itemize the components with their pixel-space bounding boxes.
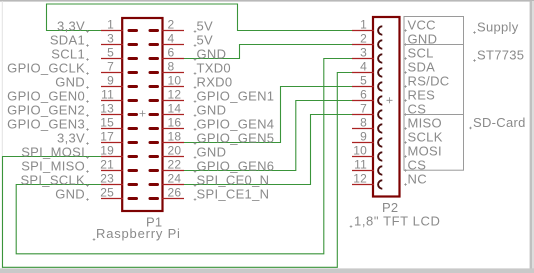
P1 pin 11 contact bar [128,99,139,102]
svg-text:7: 7 [360,102,367,116]
P2 pin 9 socket arc [378,138,382,146]
group divider Supply/ST7735 [404,44,464,46]
P1 pin 20 stub (right) [162,156,184,158]
svg-text:RES: RES [408,88,436,103]
P1 pin 17 contact bar [128,141,139,144]
P1 pin 17 stub (left) [101,142,123,144]
svg-text:5V: 5V [197,19,214,34]
svg-text:NC: NC [408,172,427,187]
P2 pin 6 stub [352,100,374,102]
connector P1 body [122,18,162,211]
P1 pin 3 stub (left) [101,44,123,46]
svg-text:11: 11 [101,88,114,102]
P1 pin 4 stub (right) [162,44,184,46]
svg-text:GPIO_GEN5: GPIO_GEN5 [197,131,275,146]
P1 pin 23 stub (left) [101,184,123,186]
P2 pin-name group box [404,17,464,171]
svg-text:SCL1: SCL1 [51,47,85,62]
svg-text:20: 20 [168,144,182,158]
P1 pin 14 stub (right) [162,114,184,116]
P1 pin 24 stub (right) [162,184,184,186]
svg-text:GPIO_GEN6: GPIO_GEN6 [197,159,275,174]
P2 pin 1 socket arc [378,26,382,34]
svg-text:5: 5 [107,46,114,60]
P2 pin 1 stub [352,30,374,32]
P1 pin 6 stub (right) [162,58,184,60]
P1 pin 24 contact bar [149,183,160,186]
svg-text:RS/DC: RS/DC [408,74,450,89]
P2 pin 10 socket arc [378,152,382,160]
P1 pin 9 contact bar [128,85,139,88]
svg-text:21: 21 [100,158,114,172]
P1 pin 16 contact bar [149,127,160,130]
svg-text:GPIO_GCLK: GPIO_GCLK [7,61,85,76]
svg-text:14: 14 [168,102,182,116]
P1 pin 18 stub (right) [162,142,184,144]
svg-text:15: 15 [100,116,114,130]
P2 pin 7 stub [352,114,374,116]
P2 pin 6 socket arc [378,96,382,104]
svg-text:3: 3 [107,32,114,46]
P2 origin marker [387,97,393,103]
svg-text:3: 3 [360,46,367,60]
P1 pin 2 stub (right) [162,30,184,32]
P2 pin 4 socket arc [378,68,382,76]
P2 pin 11 stub [352,170,374,172]
svg-text:GPIO_GEN2: GPIO_GEN2 [7,103,85,118]
svg-text:8: 8 [360,116,367,130]
svg-text:9: 9 [360,130,367,144]
P2 pin 5 stub [352,86,374,88]
connector P2 body [373,17,400,197]
svg-text:GND: GND [55,187,85,202]
svg-text:SDA: SDA [408,60,436,75]
wire net GND: P1 pin6 to P2 pin2 GND [184,45,352,59]
wire net RS/DC: P1 pin18 GPIO_GEN5 to P2 pin5 [184,87,352,143]
P1 pin 21 contact bar [128,169,139,172]
P1 pin 1 stub (left) [101,30,123,32]
svg-text:MISO: MISO [408,116,442,131]
svg-text:Raspberry Pi: Raspberry Pi [96,226,181,241]
P1 pin 11 stub (left) [101,100,123,102]
P1 pin 23 contact bar [128,183,139,186]
svg-text:10: 10 [168,74,182,88]
P1 pin 6 contact bar [149,57,160,60]
P1 pin 5 stub (left) [101,58,123,60]
P1 pin 13 stub (left) [101,114,123,116]
svg-text:2: 2 [360,32,367,46]
svg-text:1,8" TFT LCD: 1,8" TFT LCD [354,214,440,229]
P1 pin 9 stub (left) [101,86,123,88]
svg-text:SD-Card: SD-Card [473,115,526,130]
svg-text:25: 25 [100,186,114,200]
wire net SPI_MOSI: P1 pin19 to P2 pin4 SDA [3,73,353,268]
svg-text:GPIO_GEN3: GPIO_GEN3 [7,117,85,132]
svg-text:12: 12 [168,88,182,102]
P1 pin 26 contact bar [149,197,160,200]
P1 pin 15 contact bar [128,127,139,130]
svg-text:GPIO_GEN0: GPIO_GEN0 [7,89,85,104]
svg-text:16: 16 [168,116,182,130]
wire net CS: P1 pin24 SPI_CE0_N to P2 pin7 [184,115,352,185]
group divider ST7735/SD-Card [404,114,464,116]
svg-text:26: 26 [168,186,182,200]
P1 pin 4 contact bar [149,43,160,46]
P2 pin 5 socket arc [378,82,382,90]
P1 pin 7 stub (left) [101,72,123,74]
P1 pin 7 contact bar [128,71,139,74]
P1 pin 10 contact bar [149,85,160,88]
P1 pin 16 stub (right) [162,128,184,130]
P1 pin 13 contact bar [128,113,139,116]
svg-text:SCL: SCL [408,46,434,61]
svg-text:8: 8 [168,60,175,74]
svg-text:24: 24 [168,172,182,186]
svg-text:4: 4 [168,32,175,46]
svg-text:1: 1 [360,18,367,32]
P2 pin 2 stub [352,44,374,46]
svg-text:6: 6 [168,46,175,60]
svg-text:4: 4 [360,60,367,74]
svg-text:GND: GND [197,103,227,118]
svg-text:5V: 5V [197,33,214,48]
P2 pin 12 stub [352,184,374,186]
P1 origin marker [140,111,146,117]
svg-text:VCC: VCC [408,18,436,33]
svg-text:9: 9 [107,74,114,88]
P2 pin 2 socket arc [378,40,382,48]
svg-text:GND: GND [197,145,227,160]
P2 pin 4 stub [352,72,374,74]
P1 pin 15 stub (left) [101,128,123,130]
svg-text:TXD0: TXD0 [197,61,231,76]
svg-text:23: 23 [100,172,114,186]
svg-text:SPI_MISO: SPI_MISO [21,159,85,174]
svg-text:3,3V: 3,3V [57,19,85,34]
svg-text:SPI_CE1_N: SPI_CE1_N [197,187,270,202]
P2 pin 8 stub [352,128,374,130]
svg-text:12: 12 [353,172,367,186]
svg-text:17: 17 [100,130,114,144]
svg-text:SPI_SCLK: SPI_SCLK [20,173,85,188]
svg-text:3,3V: 3,3V [57,131,85,146]
P1 pin 3 contact bar [128,43,139,46]
P1 pin 2 contact bar [149,29,160,32]
svg-text:GND: GND [197,47,227,62]
P2 pin 12 socket arc [378,180,382,188]
P1 pin 12 stub (right) [162,100,184,102]
svg-text:Supply: Supply [477,20,519,35]
P2 pin 7 socket arc [378,110,382,118]
P2 pin 3 socket arc [378,54,382,62]
svg-text:SCLK: SCLK [408,130,443,145]
P1 pin 25 stub (left) [101,198,123,200]
P1 pin 10 stub (right) [162,86,184,88]
svg-text:13: 13 [100,102,114,116]
svg-text:GPIO_GEN1: GPIO_GEN1 [197,89,275,104]
svg-text:6: 6 [360,88,367,102]
P1 pin 25 contact bar [128,197,139,200]
svg-text:5: 5 [360,74,367,88]
P2 pin 11 socket arc [378,166,382,174]
svg-text:SDA1: SDA1 [50,33,85,48]
P1 pin 20 contact bar [149,155,160,158]
svg-text:RXD0: RXD0 [197,75,233,90]
P1 pin 5 contact bar [128,57,139,60]
svg-text:SPI_MOSI: SPI_MOSI [21,145,85,160]
svg-text:SPI_CE0_N: SPI_CE0_N [197,173,270,188]
svg-text:11: 11 [354,158,367,172]
P1 pin 1 contact bar [128,29,139,32]
svg-text:MOSI: MOSI [408,144,442,159]
svg-text:19: 19 [100,144,114,158]
svg-text:22: 22 [168,158,182,172]
P1 pin 12 contact bar [149,99,160,102]
svg-text:GND: GND [55,75,85,90]
P1 pin 8 contact bar [149,71,160,74]
P2 pin 8 socket arc [378,124,382,132]
P1 pin 22 contact bar [149,169,160,172]
wire net SPI_SCLK: P1 pin23 to P2 pin3 SCL [16,59,352,254]
P1 pin 14 contact bar [149,113,160,116]
P1 pin 22 stub (right) [162,170,184,172]
P1 pin 21 stub (left) [101,170,123,172]
P2 pin 3 stub [352,58,374,60]
svg-text:1: 1 [107,18,114,32]
wire net RES: P1 pin22 GPIO_GEN6 to P2 pin6 [184,101,352,171]
svg-text:18: 18 [168,130,182,144]
svg-text:10: 10 [353,144,367,158]
svg-text:7: 7 [107,60,114,74]
P2 pin 9 stub [352,142,374,144]
svg-text:2: 2 [168,18,175,32]
wire net 3V3: P1 pin1 to P2 pin1 VCC [47,4,353,31]
P1 pin 8 stub (right) [162,72,184,74]
P1 pin 19 stub (left) [101,156,123,158]
P1 pin 19 contact bar [128,155,139,158]
svg-text:GPIO_GEN4: GPIO_GEN4 [197,117,275,132]
P2 pin 10 stub [352,156,374,158]
svg-text:ST7735: ST7735 [477,48,524,63]
P1 pin 26 stub (right) [162,198,184,200]
P1 pin 18 contact bar [149,141,160,144]
